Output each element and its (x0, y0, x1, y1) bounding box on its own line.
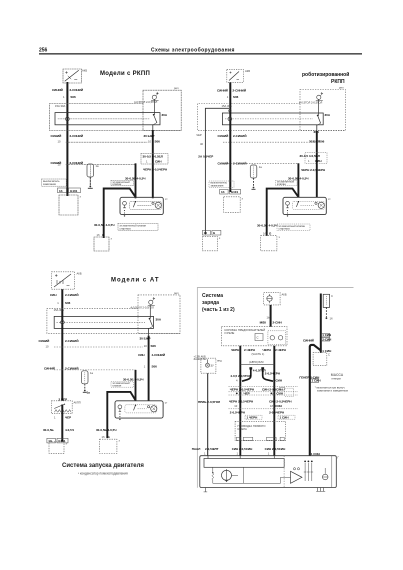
wire battery main (61, 289, 63, 401)
solenoid valve dashed label box (42, 179, 66, 186)
wire below inhibitor (61, 405, 63, 442)
svg-text:стартера: стартера (120, 227, 132, 230)
fuse box J/B dashed outline (198, 104, 346, 131)
battery GB1 symbol (65, 71, 79, 82)
ground bar left (204, 491, 208, 493)
pin box A (245, 415, 262, 419)
ground G102 pin boxes (47, 438, 56, 443)
fuse bus strip (55, 113, 160, 125)
fusible link FL1 (323, 294, 329, 307)
svg-text:10: 10 (148, 139, 151, 143)
wire ignition feed (316, 125, 318, 131)
svg-text:СИН: СИН (315, 159, 322, 163)
battery GB1 box (63, 69, 82, 83)
starter motor contact (148, 406, 150, 408)
svg-text:МАССА: МАССА (331, 373, 344, 377)
svg-text:¹ конденсатор помехоподавления: ¹ конденсатор помехоподавления (78, 472, 128, 476)
svg-text:АКБ: АКБ (82, 69, 87, 73)
svg-text:(АВТО) БЛК: (АВТО) БЛК (249, 360, 264, 364)
svg-text:ЧЕРН 2-0,5ЧЕРН: ЧЕРН 2-0,5ЧЕРН (229, 400, 253, 404)
ground G5 dashed box (100, 439, 117, 453)
alternator connector strip (204, 459, 284, 468)
connector C6 dashed box (313, 353, 327, 366)
connector sub box (268, 331, 286, 345)
svg-text:4-0,5ГОЛ 2-0,5ГОЛ: 4-0,5ГОЛ 2-0,5ГОЛ (134, 100, 157, 104)
starter motor contact (315, 202, 317, 204)
svg-text:СИН 2-0,5СИН: СИН 2-0,5СИН (232, 447, 253, 451)
svg-text:4-0,5Ч: 4-0,5Ч (65, 428, 74, 432)
wire lamp to alternator (207, 373, 209, 456)
relay K1 dashed box (143, 90, 181, 130)
solenoid plunger dots (287, 210, 288, 211)
dotted lead below link (325, 307, 327, 317)
svg-text:СИНИЙ: СИНИЙ (218, 134, 229, 138)
ground bar right (316, 491, 325, 493)
svg-text:2А 0,5ЧЕР: 2А 0,5ЧЕР (198, 155, 213, 159)
inhibitor switch S1 blade (54, 404, 64, 408)
diode bank lines (305, 463, 312, 481)
svg-text:30А: 30А (162, 113, 168, 117)
svg-text:клапан: клапан (113, 183, 122, 186)
svg-text:S06: S06 (319, 139, 325, 143)
regulator circles (293, 468, 295, 470)
svg-text:10: 10 (234, 404, 237, 408)
svg-text:ЧЕРН 2-0,5ЧЕРН: ЧЕРН 2-0,5ЧЕРН (230, 388, 254, 392)
svg-text:30 Б/КР: 30 Б/КР (140, 337, 151, 341)
wire B block to alternator (273, 346, 275, 456)
starter inner dashed box (125, 405, 157, 413)
capacitor C5 body (82, 371, 89, 384)
svg-text:СИН: СИН (275, 404, 282, 408)
diode ticks (304, 471, 313, 473)
rotor circle (222, 470, 232, 480)
header rule (39, 53, 362, 55)
svg-text:2-СИНИЙ: 2-СИНИЙ (65, 293, 78, 297)
ignition dashed label box (111, 382, 134, 387)
svg-text:СИН: СИН (276, 378, 283, 382)
svg-text:2-0,5ЧЕРН: 2-0,5ЧЕРН (265, 371, 280, 375)
svg-text:30-0,5Б 4-0,5Ч: 30-0,5Б 4-0,5Ч (96, 428, 116, 432)
alternator G1 box (200, 456, 336, 488)
svg-text:2-ЧЕРН: 2-ЧЕРН (244, 348, 255, 352)
ground G103 dashed box (224, 197, 241, 213)
rotor arrow (225, 469, 228, 482)
tag dashed box (285, 388, 294, 396)
svg-text:клапан: клапан (113, 384, 122, 387)
ground stubs right (318, 488, 324, 492)
svg-text:4-СИНИЙ: 4-СИНИЙ (152, 353, 165, 357)
starter motor M (155, 202, 161, 208)
battery GB2 box (227, 69, 244, 82)
fuse bus strip (54, 316, 153, 328)
warning lamp HL1 symbol (207, 359, 209, 363)
wire starter control vertical (135, 164, 137, 197)
svg-text:S06: S06 (155, 139, 161, 143)
svg-text:1b: 1b (267, 316, 270, 320)
stator coil squiggle (212, 472, 213, 473)
capacitor C2 body (87, 164, 94, 177)
svg-text:15А 30А: 15А 30А (54, 308, 65, 312)
svg-text:4-0,5ГОЛ: 4-0,5ГОЛ (253, 369, 266, 373)
BR block border (197, 288, 353, 488)
svg-text:S06: S06 (233, 95, 239, 99)
capacitor C2 terminal (89, 186, 91, 188)
strip entry ticks (208, 456, 274, 459)
svg-text:(часть 1 из 2): (часть 1 из 2) (202, 307, 235, 313)
svg-text:Система запуска двигателя: Система запуска двигателя (62, 463, 144, 469)
svg-text:4-0,5ГОЛ 2-0,5ГОЛ: 4-0,5ГОЛ 2-0,5ГОЛ (299, 100, 322, 104)
svg-text:ЧЕРН: ЧЕРН (263, 348, 271, 352)
fuse F4 symbol (267, 296, 272, 301)
tag boxes left (280, 387, 285, 390)
svg-text:1б: 1б (48, 439, 52, 443)
svg-text:1б: 1б (97, 233, 100, 237)
starter solenoid coil (118, 405, 122, 409)
starter M2 box (283, 197, 326, 214)
svg-text:1а: 1а (87, 391, 91, 395)
svg-text:ПААЛ: ПААЛ (192, 447, 201, 451)
lead terminal dot (326, 317, 328, 319)
svg-text:СИН: СИН (138, 353, 145, 357)
starter motor M (318, 202, 324, 208)
wire starter control vertical (297, 163, 299, 197)
warning lamp HL1 dashed box (201, 358, 216, 373)
svg-text:рел: рел (174, 87, 179, 90)
svg-text:СИНИЙ: СИНИЙ (217, 88, 228, 92)
relay K1 symbol (152, 95, 156, 99)
inner vertical line (331, 456, 333, 488)
svg-text:2-СИНИЙ: 2-СИНИЙ (233, 134, 246, 138)
solenoid valve dashed label box (209, 181, 234, 187)
splice dashed line 2 (66, 163, 136, 165)
inhibitor switch S1 dashed box (51, 401, 72, 414)
starter solenoid coil (286, 201, 290, 205)
ignition switch contact (153, 114, 155, 116)
bus junction dots (61, 315, 63, 317)
ground G101 dashed box (59, 195, 78, 215)
svg-text:1 СИН: 1 СИН (280, 415, 289, 419)
svg-text:30-0,5 4-0,5БЛ: 30-0,5 4-0,5БЛ (143, 155, 163, 159)
starter dashed label box (277, 224, 310, 231)
svg-text:И РЕЛЕ: И РЕЛЕ (225, 331, 235, 335)
dashed separator (283, 456, 285, 488)
wire relay to bus (149, 305, 151, 318)
bus terminal circle (228, 117, 232, 121)
svg-text:C: C (257, 335, 259, 339)
battery GB3 box (52, 272, 75, 289)
svg-text:MIDI: MIDI (260, 320, 266, 324)
svg-text:2-СИНИЙ: 2-СИНИЙ (65, 339, 78, 343)
svg-text:Схемы электрооборудования: Схемы электрооборудования (151, 47, 235, 54)
starter motor M (151, 406, 157, 412)
starter contact blade (135, 201, 136, 202)
wire relay to bus (317, 100, 319, 116)
starter contact blade (298, 201, 299, 202)
branch tap left cap (249, 367, 252, 369)
ground G102 dashed box (49, 442, 64, 454)
svg-text:(ЧАСТЬ 1): (ЧАСТЬ 1) (252, 352, 265, 356)
svg-text:1б: 1б (204, 231, 208, 235)
wire battery to fuse box (66, 83, 68, 195)
connector circles (270, 336, 274, 340)
solenoid plunger dots (119, 414, 120, 415)
svg-text:1б: 1б (330, 317, 333, 321)
svg-text:2-СИНИЙ: 2-СИНИЙ (70, 134, 83, 138)
svg-text:рел: рел (339, 86, 344, 89)
svg-text:30-0,5Б: 30-0,5Б (43, 428, 55, 432)
splice bus dashed line (54, 346, 143, 348)
svg-text:15А 30А: 15А 30А (55, 104, 66, 108)
svg-text:Модели с РКПП: Модели с РКПП (100, 71, 150, 77)
svg-text:2-СИНИЙ: 2-СИНИЙ (233, 88, 246, 92)
svg-text:30А: 30А (325, 113, 331, 117)
ignition switch dashed label box (111, 181, 134, 186)
svg-text:Система: Система (202, 293, 223, 299)
svg-text:1б: 1б (59, 189, 63, 193)
svg-text:СИНИЙ: СИНИЙ (52, 88, 63, 92)
wire branch to alternator B+ (310, 345, 321, 456)
wire ground run L-shape (107, 392, 135, 438)
svg-text:10: 10 (46, 345, 49, 349)
svg-text:2-СИН: 2-СИН (273, 320, 282, 324)
svg-text:ЧЕРН 2-0,5ЧЕРН: ЧЕРН 2-0,5ЧЕРН (143, 168, 167, 172)
svg-text:2-0,5ЧЕРН: 2-0,5ЧЕРН (269, 411, 284, 415)
tap wire to left ground (205, 108, 229, 234)
svg-text:2-0,5ЖЛТ: 2-0,5ЖЛТ (205, 447, 219, 451)
battery GB2 symbol (229, 72, 239, 81)
regulator triangle (291, 471, 303, 483)
starter M1 box (120, 197, 163, 214)
svg-text:30 Б/КР: 30 Б/КР (144, 134, 155, 138)
starter inner dashed box (130, 201, 162, 209)
splice dashed line 2 (223, 162, 298, 164)
solenoid plunger dots (124, 210, 125, 211)
connector band line 3 (229, 394, 299, 396)
label box 1 СИН (311, 379, 319, 382)
starter dashed label box (118, 223, 158, 230)
svg-text:C: C (331, 294, 333, 298)
capacitor C4 body (250, 165, 256, 178)
capacitor C4 terminal (253, 187, 255, 189)
svg-text:СИНИЙ: СИНИЙ (51, 134, 62, 138)
starter contact blade (135, 405, 136, 406)
svg-text:15А 30А: 15А 30А (222, 104, 233, 108)
svg-text:РКПП: РКПП (331, 79, 345, 85)
starter solenoid coil (123, 201, 127, 205)
svg-text:СИН: СИН (50, 293, 57, 297)
wire ground run L-shape (104, 189, 136, 238)
svg-text:30-0,5Б 4-0,5Ч: 30-0,5Б 4-0,5Ч (94, 223, 114, 227)
svg-text:2-СИНИЙ: 2-СИНИЙ (70, 88, 83, 92)
branch tap right stub (263, 370, 273, 382)
harness pin squares (236, 437, 240, 440)
bus dashed centerline (58, 118, 149, 120)
fuse box J/B dashed outline (47, 308, 180, 333)
starter M3 box (115, 401, 163, 418)
branch tap right cap (261, 367, 264, 369)
svg-text:30А: 30А (156, 318, 162, 322)
relay K3 dashed box (138, 295, 180, 334)
svg-text:ЧЕР: ЧЕР (65, 416, 71, 420)
svg-text:10: 10 (58, 140, 61, 144)
svg-text:10: 10 (312, 139, 315, 143)
wire fuse to block (270, 305, 272, 327)
battery GB3 symbol (54, 274, 71, 287)
capacitor C7 (324, 468, 326, 474)
svg-text:ЗАЖИГАН: ЗАЖИГАН (194, 357, 207, 361)
svg-text:2-ЧЕРН: 2-ЧЕРН (275, 348, 286, 352)
svg-text:2-СИН: 2-СИН (322, 337, 331, 341)
wire relay to bus (154, 100, 156, 115)
starter motor contact (152, 202, 154, 204)
svg-text:30-0,5Б 4-0,5Ч: 30-0,5Б 4-0,5Ч (257, 224, 277, 228)
svg-text:ЗУ: ЗУ (211, 363, 215, 367)
svg-text:СИН 2-0,5ЧЕРН: СИН 2-0,5ЧЕРН (269, 400, 291, 404)
bus dashed centerline (225, 118, 313, 120)
svg-text:1б: 1б (221, 190, 225, 194)
svg-text:10: 10 (144, 344, 147, 348)
bus junction dots (66, 112, 68, 114)
svg-text:ЧЕРН 2-0,5ЧЕРН: ЧЕРН 2-0,5ЧЕРН (301, 168, 325, 172)
svg-text:роботизированной: роботизированной (302, 71, 349, 78)
inhibitor switch S1 contacts (55, 410, 72, 413)
svg-text:КРЫЛА: КРЫЛА (238, 427, 248, 431)
svg-text:заряда: заряда (202, 300, 219, 306)
svg-text:1б: 1б (263, 232, 266, 236)
svg-text:1 СИН: 1 СИН (311, 452, 320, 456)
svg-text:АКБ: АКБ (77, 272, 82, 276)
svg-text:СИНИЙ: СИНИЙ (303, 339, 314, 343)
fuse bus strip (222, 113, 323, 125)
ground stub left (204, 488, 206, 492)
svg-text:1а: 1а (259, 165, 262, 169)
capacitor C5 lead (84, 384, 86, 391)
diode dots (304, 461, 306, 463)
connector label box C3 (305, 153, 327, 164)
fuse F4 dashed box (264, 293, 280, 305)
connector label box C1 (141, 154, 168, 165)
svg-text:2-СИНИЙ: 2-СИНИЙ (70, 161, 83, 165)
svg-text:клапан: клапан (277, 183, 286, 186)
ground G105 pin boxes (202, 230, 210, 235)
branch tap bus line (240, 364, 274, 366)
svg-text:30-0,5 4-0,5БЛ: 30-0,5 4-0,5БЛ (300, 154, 320, 158)
connector band line 1 (229, 385, 299, 387)
bus terminal circle (61, 321, 65, 325)
ground G4 dashed box (261, 236, 277, 251)
svg-text:S06: S06 (151, 344, 157, 348)
svg-text:АКБ: АКБ (282, 293, 287, 297)
svg-text:C: C (328, 352, 330, 356)
splice bus dashed line (66, 141, 147, 143)
junction circle (229, 110, 231, 112)
internal wires (213, 467, 281, 483)
svg-text:1 ЧЕРН: 1 ЧЕРН (247, 415, 258, 419)
junction dot A (236, 393, 238, 395)
capacitor C2 lead (89, 177, 91, 187)
wire battery main (229, 82, 231, 192)
ground G2 dashed box (94, 237, 109, 251)
fuse box J/B dashed outline (50, 104, 182, 131)
svg-text:АКПП: АКПП (74, 401, 81, 405)
svg-text:ЧЕРН: ЧЕРН (231, 348, 239, 352)
splice dashed line (229, 408, 299, 410)
svg-text:СИНИЙ: СИНИЙ (39, 339, 50, 343)
connector small box (255, 334, 263, 341)
bus terminal circle (66, 117, 70, 121)
svg-text:инд: инд (217, 360, 222, 363)
svg-text:G101: G101 (70, 189, 78, 193)
harness connector dashed box (235, 421, 286, 440)
svg-text:2-0,5ЧЕРН: 2-0,5ЧЕРН (230, 411, 245, 415)
svg-text:ПРИБ 2-0,5ГОЛ: ПРИБ 2-0,5ГОЛ (198, 400, 220, 404)
svg-text:рел: рел (174, 292, 179, 295)
wire ignition feed (148, 328, 150, 335)
svg-text:СИН: СИН (155, 160, 162, 164)
svg-text:зажигания: зажигания (211, 184, 224, 187)
svg-text:1б: 1б (102, 435, 105, 439)
ground G103 pin boxes (220, 189, 229, 194)
pin box B (278, 415, 295, 419)
wire starter control vertical (135, 370, 137, 401)
ground G105 dashed box (202, 237, 217, 251)
connector band line 2 (229, 391, 299, 393)
svg-text:ЧЕР: ЧЕР (244, 392, 250, 396)
svg-text:S06: S06 (65, 301, 71, 305)
svg-text:СИНИЙ: СИНИЙ (44, 366, 55, 370)
wire ignition feed (switch to starter relay) (152, 125, 154, 131)
internal wire right (281, 477, 291, 483)
relay K3 symbol (149, 300, 153, 304)
wire ground run L-shape (267, 189, 299, 236)
svg-text:стартера: стартера (279, 228, 291, 231)
svg-text:Модели с АТ: Модели с АТ (111, 278, 160, 284)
ignition switch contact (317, 115, 319, 117)
svg-text:ЧЕР: ЧЕР (196, 133, 202, 137)
svg-text:1а: 1а (96, 164, 99, 168)
svg-text:4-0,5 2-0,5ГОЛ: 4-0,5 2-0,5ГОЛ (230, 374, 251, 378)
relay K2 dashed box (300, 90, 345, 131)
svg-text:зажигании и заведенном: зажигании и заведенном (317, 389, 348, 392)
B+ label boxes (321, 333, 329, 337)
capacitor C4 lead (253, 178, 255, 188)
svg-text:1 СИН: 1 СИН (312, 379, 321, 383)
wire B+ main vertical (320, 294, 322, 353)
capacitor C5 terminal (84, 390, 86, 392)
svg-text:зажигания: зажигания (43, 183, 56, 186)
starter inner dashed box (293, 201, 325, 209)
svg-text:СИН 2-0,5СИН: СИН 2-0,5СИН (265, 447, 286, 451)
junction dot B (271, 393, 273, 395)
svg-text:40: 40 (200, 142, 203, 146)
svg-text:G101: G101 (231, 190, 239, 194)
svg-text:30-0,5Б 4-0,5Ч: 30-0,5Б 4-0,5Ч (123, 377, 143, 381)
svg-text:S06: S06 (70, 95, 76, 99)
svg-text:1б: 1б (270, 404, 273, 408)
svg-text:1а: 1а (90, 371, 93, 375)
wire A block to alternator (239, 346, 241, 456)
svg-text:СИНИЙ: СИНИЙ (51, 161, 62, 165)
ignition dashed label box (276, 180, 298, 185)
svg-text:АКБ: АКБ (245, 69, 250, 73)
ground G101 pin boxes (58, 188, 67, 193)
svg-text:генерат: генерат (332, 378, 342, 381)
svg-text:S06: S06 (152, 365, 158, 369)
svg-text:256: 256 (39, 48, 48, 54)
relay K2 symbol (317, 95, 321, 99)
ignition switch contact (149, 318, 151, 320)
bus dashed centerline (57, 321, 146, 323)
